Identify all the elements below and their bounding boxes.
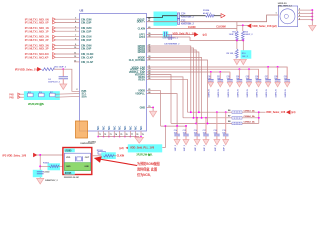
resistor R1234: [206, 14, 215, 17]
junction cap C35: [248, 68, 250, 70]
junction cap C38: [277, 66, 279, 68]
svg-text:100UF_2: 100UF_2: [244, 34, 253, 36]
off-page arrow VDD p1: [287, 110, 290, 114]
wire GND down: [152, 107, 154, 111]
capacitor C18 highlight: [163, 31, 168, 38]
capacitor C37: [267, 67, 269, 79]
wire VDDPLL: [147, 94, 178, 127]
pin stub NC 8: [135, 131, 137, 136]
svg-text:GND: GND: [84, 166, 89, 168]
capacitor C18: [163, 32, 165, 38]
junction NC 5: [119, 136, 121, 138]
crystal pin 5 stub: [298, 19, 313, 21]
svg-text:CIN_D0P: CIN_D0P: [81, 48, 92, 51]
svg-text:CLKIN: CLKIN: [138, 28, 146, 31]
ground C34: [237, 82, 242, 87]
svg-text:CLK_OUT/DIA: CLK_OUT/DIA: [129, 59, 146, 62]
svg-text:VDD_Selec_1V8 (p2): VDD_Selec_1V8 (p2): [252, 24, 276, 28]
wire pair 2 P: [53, 30, 56, 33]
svg-text:77: 77: [131, 134, 133, 136]
capacitor C18 bank2: [216, 112, 218, 134]
ground C19 bank2: [223, 140, 229, 145]
highlight cyan block: [154, 12, 178, 26]
svg-text:10UF/6.3V_2: 10UF/6.3V_2: [48, 82, 61, 84]
ground C14 bank2: [174, 140, 180, 145]
wire pair 5 P: [53, 56, 56, 59]
junction cap C16 bank2: [196, 117, 198, 119]
pin stub NC 9: [140, 131, 142, 136]
capacitor C14 bank2: [176, 126, 178, 134]
highlight C1502 cyan: [33, 170, 43, 177]
capacitor C31: [219, 72, 221, 79]
wire DOUT- dark: [147, 16, 178, 18]
svg-text:104P_2: 104P_2: [223, 145, 226, 151]
svg-text:KMERBN_2: KMERBN_2: [181, 22, 194, 25]
svg-text:104P/6.3V: 104P/6.3V: [227, 88, 230, 97]
wire CLKIN: [147, 28, 237, 30]
svg-text:CLK26M: CLK26M: [216, 25, 225, 28]
junction NC 4: [113, 136, 115, 138]
svg-text:VDD_Seld_PLL_1V8: VDD_Seld_PLL_1V8: [130, 146, 155, 150]
capacitor C40: [168, 35, 170, 40]
junction crystal pin 5: [311, 19, 313, 21]
junction NC 9: [140, 136, 142, 138]
junction NC 7: [130, 136, 132, 138]
svg-text:13: 13: [74, 60, 76, 62]
svg-text:VDD_Selec_1V8: VDD_Selec_1V8: [266, 110, 286, 114]
pin stub NC 6: [124, 131, 126, 136]
svg-text:75: 75: [120, 134, 122, 136]
ground R10b: [240, 59, 246, 64]
junction C4: [62, 68, 64, 70]
svg-text:IP1 MLTX1_MDI_1P: IP1 MLTX1_MDI_1P: [25, 29, 49, 33]
pin stub CIN_CLAP: [74, 61, 80, 63]
svg-text:IP1 MLTX1_MDI_2P: IP1 MLTX1_MDI_2P: [25, 38, 49, 42]
resistor R11: [236, 31, 239, 40]
wire DOUT+: [147, 21, 178, 23]
capacitor C16 bank2: [196, 118, 198, 134]
wire GPIO1: [147, 48, 194, 118]
wire pair 3 P: [53, 38, 56, 41]
svg-text:(p1): (p1): [203, 34, 207, 37]
wire P4B2: [20, 96, 27, 98]
svg-text:OSMUM3-B6L2: OSMUM3-B6L2: [80, 143, 95, 145]
resistor RN6: [39, 93, 45, 97]
svg-text:11: 11: [74, 53, 76, 55]
svg-text:IP3 VDD_Selec_1V8: IP3 VDD_Selec_1V8: [15, 68, 39, 72]
wire VDD to osc: [37, 154, 63, 156]
svg-text:104P/6.3V: 104P/6.3V: [208, 88, 211, 97]
wire pair 5 N: [53, 53, 56, 56]
ground C36: [256, 82, 261, 87]
wire VDD bus B: [147, 69, 259, 78]
wire LPF1: [147, 34, 164, 36]
crystal pin 4 stub: [298, 16, 313, 18]
wire C4 down: [62, 69, 64, 76]
svg-text:104P_2: 104P_2: [174, 145, 177, 151]
svg-text:73: 73: [110, 134, 112, 136]
wire VDD bus E: [147, 77, 184, 118]
junction cap C37: [267, 66, 269, 68]
highlight red box oscillator: [63, 148, 92, 175]
crystal X1 body: [278, 6, 297, 27]
ground C15 bank2: [183, 140, 189, 145]
svg-text:GPIO3: GPIO3: [138, 51, 146, 54]
off-page arrow VDD_Selec_1V8 p2: [248, 24, 251, 28]
damper C24: [177, 13, 179, 19]
svg-text:IP1 MLTX1_MDI_0P: IP1 MLTX1_MDI_0P: [25, 21, 49, 25]
svg-text:CLKIN: CLKIN: [188, 26, 196, 29]
capacitor C38: [277, 67, 279, 79]
highlight R10 cyan: [241, 50, 252, 59]
svg-text:104P/6.3V: 104P/6.3V: [217, 88, 220, 97]
capacitor C30: [210, 72, 212, 79]
wire rail 3 out: [242, 122, 259, 124]
svg-text:CLKIN: CLKIN: [117, 155, 125, 158]
capacitor C36: [258, 69, 260, 79]
junction NC 3: [108, 136, 110, 138]
svg-text:C0MA1_2A: C0MA1_2A: [244, 109, 256, 112]
svg-text:R17: R17: [50, 92, 53, 94]
svg-text:CIN_D2P: CIN_D2P: [81, 30, 92, 33]
svg-text:104P_2: 104P_2: [203, 145, 206, 151]
junction cap C31: [219, 71, 221, 73]
svg-text:R13 10UF_2: R13 10UF_2: [55, 66, 67, 68]
svg-text:IP1 MLTX1_MCLKP: IP1 MLTX1_MCLKP: [25, 55, 49, 59]
ground C37: [265, 82, 270, 87]
label U1505 cyan: [64, 149, 75, 153]
crystal pin 2 stub: [298, 9, 313, 11]
junction GPIO1 rail: [193, 117, 195, 119]
junction cap C34: [238, 68, 240, 70]
wire CLKIN riser: [236, 22, 238, 31]
svg-text:3: 3: [75, 18, 76, 20]
ground C17 bank2: [203, 140, 209, 145]
resistor R1506 body: [98, 152, 106, 155]
capacitor C1502: [37, 171, 44, 173]
capacitor C17 bank2: [205, 118, 207, 134]
wire VDD to P2B: [63, 69, 79, 91]
svg-text:C0MA3_2A: C0MA3_2A: [244, 121, 256, 124]
svg-text:10K_2: 10K_2: [242, 56, 249, 58]
pin stub NC 5: [119, 131, 121, 136]
ground NC rail: [135, 137, 144, 143]
wire R12 riser: [242, 25, 244, 31]
svg-text:104P/6.3V: 104P/6.3V: [246, 88, 249, 97]
resistor RN7: [50, 93, 56, 97]
junction cap C19 bank2: [225, 111, 227, 113]
junction cross right: [242, 40, 244, 42]
svg-text:U1505: U1505: [65, 151, 72, 153]
svg-text:104P/6.3V: 104P/6.3V: [284, 88, 287, 97]
junction crystal pin 4: [311, 16, 313, 18]
junction cross left: [236, 40, 238, 42]
svg-text:XTAL SMT3.2-4: XTAL SMT3.2-4: [278, 5, 293, 8]
junction GPIO2 rail: [195, 122, 197, 124]
off-page arrow PLL: [194, 33, 197, 37]
wire pair 1 P: [53, 21, 56, 24]
ground C1502: [37, 178, 44, 184]
ground C35: [246, 82, 251, 87]
crystal pin 3 stub: [298, 12, 313, 14]
junction NC 8: [135, 136, 137, 138]
svg-text:SDA: SDA: [82, 95, 87, 98]
junction PLL riser: [164, 125, 166, 127]
svg-text:资料保留, 此图: 资料保留, 此图: [137, 166, 157, 171]
junction GPIO0 rail: [190, 111, 192, 113]
wire GPIO3: [147, 52, 199, 112]
wire VDDD: [147, 91, 161, 126]
svg-text:5: 5: [299, 18, 300, 20]
ground crystal: [309, 25, 316, 31]
oscillator inner body: [65, 153, 91, 170]
highlight R1505 cyan: [48, 163, 61, 170]
wire rail 2 out: [242, 117, 259, 119]
highlight USB filter cyan: [24, 91, 60, 100]
capacitor C35: [248, 69, 250, 79]
svg-text:GND: GND: [66, 166, 71, 168]
svg-text:为预防BOM做图: 为预防BOM做图: [137, 161, 160, 166]
pin stub NC 7: [129, 131, 131, 136]
svg-text:P4B: P4B: [9, 96, 14, 99]
wire pair 2 N: [53, 26, 56, 29]
svg-text:7: 7: [75, 35, 76, 37]
ground C31: [218, 82, 223, 87]
junction osc vdd: [39, 154, 41, 156]
junction NC 2: [103, 136, 105, 138]
wire pair 1 N: [53, 18, 56, 21]
junction C15 rail: [185, 125, 187, 127]
svg-text:5: 5: [75, 26, 76, 28]
ground IC GND pin: [150, 111, 157, 117]
svg-text:R16: R16: [39, 92, 42, 94]
svg-text:2P,2R,2W 做B.: 2P,2R,2W 做B.: [28, 102, 45, 106]
off-page arrow DOUT: [221, 14, 225, 18]
junction cap C14 bank2: [176, 125, 178, 127]
capacitor C33: [229, 72, 231, 79]
wire bottom rail: [161, 125, 186, 127]
off-page arrow IP3 bottom: [33, 153, 36, 157]
svg-text:104P_2: 104P_2: [214, 145, 217, 151]
wire R1507 out: [114, 155, 117, 157]
svg-text:10: 10: [74, 47, 76, 49]
svg-text:P4B: P4B: [9, 93, 14, 96]
off-page arrow PLL bottom: [126, 146, 129, 150]
wire P4B1: [20, 93, 27, 95]
off-page arrow IP3 VDD: [37, 67, 40, 71]
junction COM 1: [258, 111, 260, 113]
svg-text:72: 72: [104, 134, 106, 136]
svg-text:104P/6.3V: 104P/6.3V: [255, 88, 258, 97]
svg-text:104P/6.3V: 104P/6.3V: [236, 88, 239, 97]
capacitor C4: [59, 76, 68, 78]
junction GND: [152, 106, 154, 108]
pin stub NC 3: [108, 131, 110, 136]
pin stub NC 1: [97, 131, 99, 136]
resistor RN5: [28, 93, 33, 97]
svg-text:CIN_CLKP: CIN_CLKP: [81, 56, 93, 59]
ground C33: [227, 82, 232, 87]
ground C4: [60, 84, 67, 90]
arrow P4B1: [18, 93, 20, 95]
junction cap C18 bank2: [216, 111, 218, 113]
ground C16 bank2: [194, 140, 200, 145]
wire LPF2 cross: [190, 37, 243, 41]
svg-text:R1234: R1234: [203, 9, 210, 12]
svg-text:12: 12: [74, 56, 76, 58]
ground C39: [285, 82, 290, 87]
wire filter out 2: [55, 95, 79, 98]
junction VDDPLL rail: [176, 125, 178, 127]
wire GPIO0: [147, 46, 191, 112]
svg-text:X2M3225-26.0M: X2M3225-26.0M: [64, 177, 79, 179]
wire rail 3: [171, 122, 232, 124]
svg-text:79: 79: [142, 134, 144, 136]
svg-text:2: 2: [299, 9, 300, 11]
wire to R1234: [180, 15, 206, 17]
wire pair 3 N: [53, 35, 56, 38]
wire pair 4 N: [53, 44, 56, 47]
svg-text:C18 KMERBN_2: C18 KMERBN_2: [163, 37, 179, 39]
junction COM 2: [258, 117, 260, 119]
junction cap C30: [210, 71, 212, 73]
wire LPF2: [147, 36, 191, 38]
svg-text:仅为NCB,: 仅为NCB,: [137, 172, 151, 177]
svg-text:104P_2: 104P_2: [183, 145, 186, 151]
wire R10a lead: [236, 41, 238, 50]
junction cap C17 bank2: [205, 117, 207, 119]
resistor R1507: [104, 155, 114, 158]
wire rail 1 out: [242, 111, 259, 113]
op-amp U2 PHY IC body: [80, 14, 147, 132]
wire VDD bus A: [147, 67, 288, 79]
wire VDD bus D: [147, 75, 172, 124]
svg-text:VDD_Seld_PLL_1V8: VDD_Seld_PLL_1V8: [173, 31, 197, 35]
svg-text:104P/6.3V: 104P/6.3V: [275, 88, 278, 97]
junction osc r: [39, 165, 41, 167]
wire CLK_OUT: [147, 60, 208, 123]
highlight orange box: [76, 121, 88, 138]
wire LPF1 out: [167, 34, 198, 36]
wire COM tie: [258, 112, 260, 123]
green area oscillator: [65, 163, 91, 171]
junction crystal pin 3: [311, 12, 313, 14]
svg-text:71: 71: [99, 134, 101, 136]
svg-text:2P,2R,2W 做B.: 2P,2R,2W 做B.: [136, 153, 153, 157]
svg-text:GND: GND: [140, 106, 146, 109]
ground C30: [208, 82, 213, 87]
ground C18 bank2: [214, 140, 220, 145]
junction cap C15 bank2: [185, 125, 187, 127]
wire crystal gnd: [311, 10, 313, 25]
highlight PLL label cyan: [128, 144, 162, 152]
svg-text:C1502: C1502: [44, 172, 51, 174]
capacitor C19 bank2: [225, 112, 227, 134]
wire to VDD arrow: [259, 111, 266, 113]
annotation arrow red: [99, 159, 137, 166]
resistor R1505: [40, 165, 49, 167]
svg-text:R15: R15: [28, 92, 31, 94]
capacitor C15 bank2: [185, 126, 187, 134]
capacitor C39: [286, 67, 288, 79]
wire R10b lead: [242, 41, 244, 59]
capacitor C34: [238, 69, 240, 79]
wire R1234 out: [214, 15, 221, 17]
svg-text:(p1): (p1): [291, 111, 295, 114]
junction GPIO3 rail: [198, 111, 200, 113]
svg-text:8: 8: [75, 38, 76, 40]
wire filter out 1: [55, 93, 79, 96]
arrow P4B2: [18, 96, 20, 98]
junction NC 1: [97, 136, 99, 138]
svg-text:IP3 VDD_Selec_1V8: IP3 VDD_Selec_1V8: [3, 154, 27, 158]
svg-text:6: 6: [75, 30, 76, 32]
wire osc branch down: [39, 155, 41, 178]
resistor R13: [42, 68, 55, 71]
svg-text:104P_2: 104P_2: [194, 145, 197, 151]
svg-text:X4M4TN3V_2: X4M4TN3V_2: [45, 179, 59, 182]
svg-text:RESV: RESV: [138, 78, 145, 81]
junction R12 tap: [242, 24, 244, 26]
junction CLK_OUT rail: [207, 122, 209, 124]
wire rail 2: [183, 117, 232, 119]
highlight R1507 cyan: [101, 152, 116, 159]
svg-text:VDD: VDD: [66, 157, 71, 159]
ground C38: [275, 82, 280, 87]
svg-text:IP1 MLTX1_MDI_3P: IP1 MLTX1_MDI_3P: [25, 47, 49, 51]
svg-text:76: 76: [126, 134, 128, 136]
svg-text:DOUT+: DOUT+: [137, 21, 146, 24]
wire GPIO2: [147, 50, 197, 123]
svg-text:LPF2: LPF2: [139, 36, 146, 39]
resistor R10: [236, 49, 239, 58]
svg-text:CIN_D3P: CIN_D3P: [81, 22, 92, 25]
junction MODE rail: [201, 117, 203, 119]
svg-text:104P/6.3V: 104P/6.3V: [265, 88, 268, 97]
wire C4 gnd: [62, 79, 64, 84]
ground R10a: [234, 59, 240, 64]
svg-text:CIN_D1P: CIN_D1P: [81, 39, 92, 42]
svg-text:26.0MHZ: 26.0MHZ: [88, 141, 97, 143]
svg-text:3: 3: [299, 12, 300, 14]
svg-text:(p3): (p3): [119, 147, 123, 150]
wire R13 out: [54, 68, 63, 70]
wire pullup stub: [237, 24, 248, 26]
crystal symbol: [75, 156, 77, 161]
svg-text:X1505: X1505: [65, 173, 72, 175]
wire DOUT+ to crystal: [180, 15, 279, 22]
svg-text:U2: U2: [80, 9, 84, 13]
wire PLL label riser: [162, 126, 165, 147]
wire VDD bus C: [147, 72, 230, 79]
wire rail 1: [187, 111, 232, 113]
svg-text:9: 9: [75, 44, 76, 46]
wire OUT: [92, 155, 102, 157]
junction crystal pin 2: [311, 9, 313, 11]
svg-text:VDDPLL: VDDPLL: [135, 93, 145, 96]
wire MODE: [147, 58, 202, 118]
pin stub NC 4: [113, 131, 115, 136]
svg-text:78: 78: [136, 134, 138, 136]
junction NC 6: [124, 136, 126, 138]
svg-text:C0MA2_2A: C0MA2_2A: [244, 115, 256, 118]
svg-text:CIN_CLAP: CIN_CLAP: [81, 61, 93, 64]
label X1505 cyan: [64, 171, 75, 174]
wire pair 4 P: [53, 47, 56, 50]
wire VDD bus F: [147, 79, 188, 112]
pin stub NC 2: [103, 131, 105, 136]
svg-text:C40 KMERBN_2: C40 KMERBN_2: [164, 43, 180, 46]
